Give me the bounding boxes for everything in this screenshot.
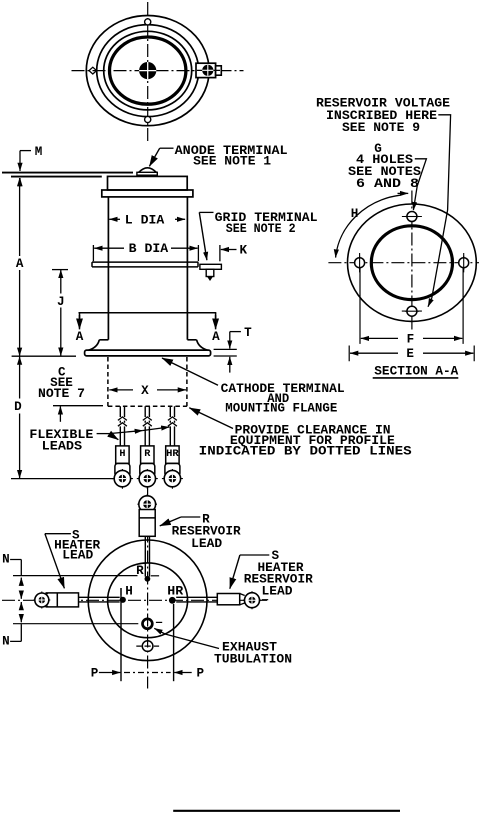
grid terminal — [200, 264, 222, 269]
svg-text:N: N — [2, 553, 10, 567]
R pin tick — [151, 575, 159, 577]
R reservoir lead stem — [145, 536, 149, 576]
section arrow right — [215, 313, 217, 318]
flange bottom extension line — [12, 355, 76, 357]
grid flange — [92, 262, 198, 267]
H pin dot and tick — [120, 588, 122, 595]
R reservoir lead ring — [137, 494, 157, 514]
section vertical centerline — [411, 191, 413, 332]
left hole — [355, 258, 365, 268]
lead 2 lug — [141, 446, 154, 464]
svg-text:R: R — [144, 449, 151, 460]
flexible leads leader — [97, 433, 109, 435]
top view vertical centerline — [147, 2, 149, 142]
lead 3 ring terminal — [162, 469, 183, 489]
E dimension arrows — [350, 352, 398, 354]
anode top reference line — [2, 172, 133, 174]
flexible lead 2 wire — [137, 406, 158, 489]
svg-text:B DIA: B DIA — [129, 242, 169, 256]
svg-text:SECTION A-A: SECTION A-A — [374, 365, 458, 379]
svg-text:SEE NOTE 9: SEE NOTE 9 — [342, 121, 420, 135]
dashed clearance profile left — [107, 357, 109, 406]
svg-text:P: P — [197, 667, 205, 681]
svg-text:INDICATED BY DOTTED LINES: INDICATED BY DOTTED LINES — [199, 444, 412, 458]
center anode boss filled circle — [139, 62, 156, 79]
dimension D line — [19, 357, 21, 399]
lead end extension line — [11, 478, 114, 480]
svg-text:E: E — [406, 347, 414, 361]
svg-text:L DIA: L DIA — [125, 213, 165, 227]
bottom view vertical centerline — [147, 488, 149, 689]
bottom ear circle — [145, 116, 151, 122]
bell flare left — [88, 340, 108, 351]
svg-text:MOUNTING FLANGE: MOUNTING FLANGE — [225, 402, 337, 416]
dimension M bracket — [20, 150, 31, 152]
section outer ellipse — [348, 204, 477, 321]
top view horizontal centerline — [72, 70, 244, 72]
svg-text:R: R — [136, 564, 144, 578]
svg-text:A: A — [16, 257, 24, 271]
svg-text:D: D — [14, 400, 22, 414]
right index tab rectangle — [196, 63, 216, 77]
dimension C arrow — [53, 405, 103, 407]
F dimension arrows — [361, 337, 398, 339]
svg-text:HR: HR — [167, 585, 183, 599]
bottom view inner circle — [108, 563, 188, 638]
tube body left side — [107, 197, 109, 340]
section horizontal centerline — [328, 262, 479, 264]
svg-text:NOTE 7: NOTE 7 — [38, 387, 85, 401]
svg-text:T: T — [244, 326, 252, 340]
top view outer ellipse — [86, 16, 209, 126]
tube body right side — [186, 197, 188, 340]
section bore heavy ellipse — [371, 226, 452, 300]
right hole — [459, 258, 469, 268]
bell flare right — [187, 340, 207, 351]
hole tick marks — [360, 217, 464, 312]
right index tab small rectangle — [216, 66, 222, 75]
svg-text:TUBULATION: TUBULATION — [214, 653, 292, 667]
4 holes leader — [415, 159, 427, 186]
exhaust tubulation circle — [143, 619, 153, 629]
lead 2 ring terminal — [137, 469, 158, 489]
bottom view outer circle — [88, 540, 207, 661]
reservoir voltage leader — [432, 115, 451, 298]
R reservoir lead leader — [181, 516, 200, 518]
left heater lead lug — [46, 593, 78, 607]
anode terminal leader — [160, 147, 174, 149]
lead 3 lug — [166, 446, 179, 464]
section arrow left — [79, 313, 81, 318]
B DIA extension ticks — [93, 245, 198, 261]
svg-text:LEAD: LEAD — [62, 549, 93, 563]
T extension lines — [214, 349, 237, 356]
X dimension arrows — [109, 389, 133, 391]
P extension verticals — [120, 588, 122, 681]
H angular dimension arc — [336, 195, 400, 257]
tube cap rectangle — [108, 176, 188, 190]
E extension ticks — [349, 346, 474, 362]
S heater reservoir leader (right) — [240, 554, 269, 556]
K extension tick — [219, 245, 221, 261]
HR pin dot — [169, 597, 176, 604]
flexible lead 3 wire — [162, 406, 183, 489]
P dimension line — [99, 672, 121, 674]
svg-text:A: A — [212, 330, 220, 344]
anode terminal dome — [137, 172, 157, 175]
svg-text:SEE NOTE 2: SEE NOTE 2 — [226, 222, 296, 236]
top hole — [407, 212, 417, 222]
svg-text:6 AND 8: 6 AND 8 — [356, 177, 419, 191]
svg-text:N: N — [2, 635, 10, 649]
R pin dot — [145, 576, 151, 582]
B DIA arrows — [94, 247, 124, 249]
grid terminal leader — [199, 211, 213, 213]
top view second ellipse — [97, 25, 199, 117]
svg-text:X: X — [141, 384, 149, 398]
lead 1 lug — [116, 446, 129, 464]
R reservoir lead barrel — [139, 510, 155, 537]
svg-text:HR: HR — [166, 449, 180, 460]
svg-text:LEAD: LEAD — [191, 537, 222, 551]
svg-text:J: J — [57, 295, 65, 309]
L DIA arrows — [109, 218, 120, 220]
cathode terminal leader — [162, 358, 218, 385]
svg-text:SEE NOTE 1: SEE NOTE 1 — [193, 155, 271, 169]
svg-text:H: H — [125, 585, 133, 599]
svg-text:P: P — [91, 667, 99, 681]
S heater lead leader (left) — [45, 533, 71, 535]
left heater lead wire — [79, 597, 120, 602]
svg-text:F: F — [407, 332, 415, 346]
top ear circle — [145, 19, 151, 25]
N extension lines — [13, 576, 138, 624]
dimension J — [52, 269, 68, 271]
SECTION A-A underline — [373, 377, 459, 379]
F extension ticks — [360, 268, 463, 344]
N dimension brackets and arrows — [10, 560, 21, 642]
svg-text:H: H — [119, 449, 125, 460]
K arrow — [221, 249, 237, 251]
svg-text:M: M — [35, 145, 43, 159]
top view third ellipse — [104, 31, 192, 110]
bottom hole — [407, 306, 417, 316]
section cut line A-A — [79, 312, 217, 314]
cap flange ring — [102, 190, 193, 197]
cap top reference line — [11, 176, 102, 178]
exhaust tubulation leader — [165, 634, 219, 649]
bottom border line — [173, 810, 400, 812]
svg-text:LEAD: LEAD — [262, 584, 293, 598]
top view heavy inner ellipse — [110, 37, 186, 104]
svg-text:H: H — [351, 207, 359, 221]
clearance leader — [189, 408, 233, 429]
right lead ring — [243, 591, 261, 609]
cathode mounting flange — [85, 350, 211, 356]
dashed clearance profile right — [186, 357, 188, 406]
svg-text:K: K — [240, 244, 248, 258]
right lead lug — [217, 594, 239, 605]
left ear diamond — [89, 67, 97, 74]
lead 1 ring terminal — [112, 469, 133, 489]
dimension A line — [19, 178, 21, 256]
dashed clearance profile bottom — [108, 405, 187, 407]
svg-text:LEADS: LEADS — [42, 439, 83, 453]
bottom view horizontal centerline — [2, 599, 268, 601]
svg-text:A: A — [76, 330, 84, 344]
small hole below center — [136, 645, 159, 647]
left heater lead ring — [33, 592, 50, 609]
right lead wire — [176, 597, 217, 602]
T bracket and arrows — [230, 331, 241, 333]
tab filled circle — [202, 65, 213, 76]
flexible lead 1 wire — [112, 406, 133, 489]
